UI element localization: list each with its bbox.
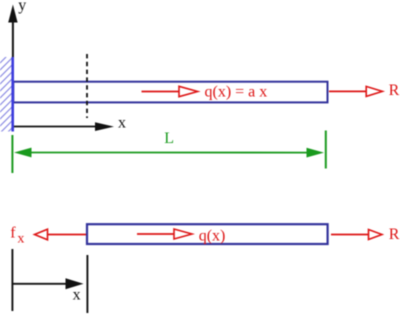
- y-axis: [8, 5, 17, 128]
- x-axis: [14, 122, 114, 131]
- svg-text:R: R: [389, 82, 400, 99]
- origin line: [11, 249, 13, 311]
- x arrow (bottom axis): [12, 278, 83, 289]
- load arrow q (bottom): [137, 229, 192, 239]
- load arrow q (top): [142, 86, 198, 96]
- svg-text:x: x: [73, 287, 81, 304]
- svg-text:x: x: [17, 231, 24, 246]
- dimension line L: [12, 131, 325, 174]
- svg-text:q(x) = a x: q(x) = a x: [205, 84, 268, 101]
- force arrow f_x: [35, 229, 87, 240]
- svg-text:R: R: [389, 226, 400, 243]
- svg-text:f: f: [10, 225, 16, 242]
- svg-text:q(x): q(x): [199, 228, 226, 245]
- beam: [13, 82, 327, 103]
- svg-text:x: x: [118, 115, 126, 132]
- svg-text:y: y: [18, 0, 26, 14]
- dashed line: [86, 54, 88, 118]
- reaction arrow R (bottom): [331, 230, 382, 240]
- reaction arrow R (top): [329, 86, 382, 96]
- svg-text:L: L: [164, 130, 174, 147]
- wall: [0, 57, 13, 132]
- cut line: [86, 255, 88, 313]
- beam segment (free body): [87, 224, 328, 244]
